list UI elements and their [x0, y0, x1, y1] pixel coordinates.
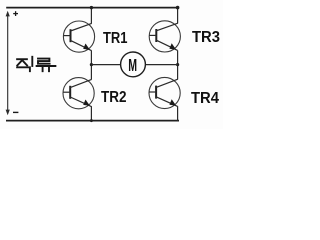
wire: left half-bridge, +rail to TR1 collector	[90, 8, 92, 24]
svg-text:TR2: TR2	[101, 89, 127, 106]
류 : ㅠ	[37, 65, 56, 67]
junction: left motor node	[90, 63, 93, 66]
직 : ㄱ	[17, 67, 30, 71]
label + (positive terminal)	[13, 11, 18, 16]
wire: left motor lead	[91, 64, 120, 66]
transistor TR3 (NPN, top right)	[149, 21, 180, 52]
wire: right half-bridge, +rail to TR3 collector	[177, 8, 179, 24]
wire: TR4 emitter to -rail	[177, 106, 179, 120]
transistor TR2 (NPN, bottom left)	[63, 78, 94, 109]
svg-text:TR1: TR1	[103, 30, 128, 47]
junction: +rail end / right bridge	[176, 6, 180, 10]
label - (negative terminal)	[13, 111, 18, 113]
transistor TR1 (NPN, top left)	[63, 21, 94, 52]
직 : ㅈ	[17, 58, 27, 60]
wire: - supply rail (bottom)	[6, 120, 179, 122]
svg-text:M: M	[128, 55, 137, 75]
DC supply polarity arrow (double-headed)	[6, 11, 10, 115]
svg-text:TR4: TR4	[191, 90, 219, 107]
wire: + supply rail (top)	[6, 7, 178, 9]
transistor TR4 (NPN, bottom right)	[149, 77, 180, 108]
류 : ㄹ	[38, 59, 50, 64]
wire: TR3 emitter to motor node to TR4 collector	[177, 50, 179, 79]
junction: +rail / left bridge	[90, 6, 93, 9]
motor M	[121, 52, 146, 77]
wire: TR2 emitter to -rail	[90, 106, 92, 120]
직 : ㅣ	[31, 57, 33, 66]
wire: TR1 emitter to motor node to TR2 collector	[90, 50, 92, 79]
wire: right motor lead	[145, 64, 177, 66]
junction: -rail / left bridge	[90, 119, 93, 122]
junction: right motor node	[176, 63, 179, 66]
label 직류 (DC) drawn as strokes	[17, 57, 55, 71]
svg-text:TR3: TR3	[192, 29, 220, 46]
